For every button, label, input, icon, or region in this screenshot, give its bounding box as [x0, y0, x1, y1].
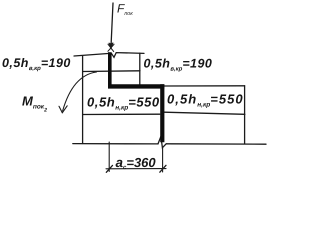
svg-text:Mпок2: Mпок2 [22, 94, 47, 114]
svg-text:Fпок: Fпок [117, 2, 133, 18]
right box right edge [244, 86, 246, 144]
bottom line left [73, 143, 158, 145]
top line left of column [74, 54, 108, 57]
svg-text:0,5hв,кр=190: 0,5hв,кр=190 [144, 56, 213, 72]
tick slash right [160, 165, 166, 172]
column corbel thick outline [108, 52, 164, 142]
wire [73, 3, 266, 148]
rail bottom line [83, 70, 140, 73]
extension line left [108, 142, 110, 172]
dimension a=360 [106, 142, 166, 172]
svg-text:0,5hв,кр=190: 0,5hв,кр=190 [2, 56, 71, 72]
left vertical edge [82, 56, 84, 143]
right box top [164, 85, 245, 87]
arrowhead of force F [108, 43, 114, 52]
left row separator [83, 113, 160, 115]
dimension line [106, 168, 166, 170]
svg-text:ac=360: ac=360 [116, 155, 157, 171]
svg-text:0,5hн,кр=550: 0,5hн,кр=550 [167, 92, 244, 109]
extension line right [162, 148, 164, 172]
right row separator [164, 112, 245, 114]
tick slash left [106, 165, 112, 172]
moment curved arrow [59, 72, 97, 113]
force arrow F stem [111, 3, 113, 47]
bottom line right [166, 143, 266, 145]
svg-text:0,5hн,кр=550: 0,5hн,кр=550 [87, 95, 160, 112]
right tick of rail box [139, 53, 141, 84]
notch break at load point [111, 53, 144, 58]
break zigzag [158, 137, 166, 148]
